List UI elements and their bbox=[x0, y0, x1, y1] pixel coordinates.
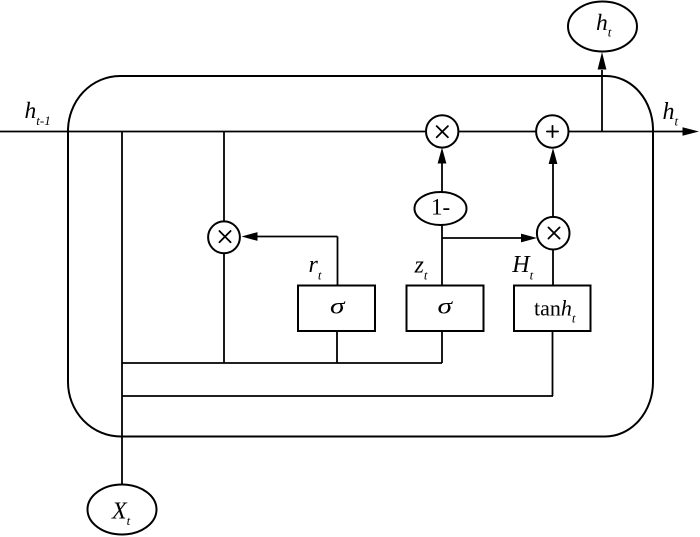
plus symbol bbox=[547, 126, 558, 137]
GRU cell body rounded rectangle bbox=[68, 76, 653, 437]
box tanh candidate bbox=[514, 286, 591, 332]
wire bottom bus 1 bbox=[122, 362, 442, 364]
arrowhead into lower multiply bbox=[521, 234, 537, 243]
svg-text:zt: zt bbox=[414, 252, 428, 282]
arrowhead into top multiply bbox=[438, 148, 447, 164]
svg-text:σ: σ bbox=[330, 294, 347, 319]
wire left multiply vertical bbox=[223, 132, 225, 364]
wire z branch to lower multiply bbox=[442, 237, 521, 239]
multiply node on main line bbox=[426, 115, 458, 147]
svg-text:ht: ht bbox=[663, 99, 679, 129]
multiply symbol left bbox=[219, 231, 230, 242]
svg-text:1-: 1- bbox=[431, 195, 450, 220]
svg-text:ht-1: ht-1 bbox=[25, 98, 51, 128]
wire main h line bbox=[0, 131, 683, 133]
arrowhead h_t right output bbox=[683, 127, 700, 136]
multiply symbol top bbox=[437, 126, 448, 137]
ellipse 1- operator bbox=[415, 192, 467, 225]
multiply symbol lower bbox=[548, 227, 559, 238]
wire r gate horizontal into left multiply bbox=[258, 236, 338, 238]
box sigma z gate bbox=[407, 286, 484, 332]
ellipse h_t output bbox=[568, 2, 637, 52]
wire z sigma box bottom drop bbox=[441, 331, 443, 363]
svg-text:rt: rt bbox=[309, 252, 322, 283]
wire h_t output riser bbox=[601, 70, 603, 132]
wire candidate to plus bbox=[552, 164, 554, 217]
ellipse X_t input bbox=[88, 485, 157, 535]
wire tanh box bottom drop bbox=[552, 331, 554, 396]
wire z vertical above 1- ellipse bbox=[441, 163, 443, 193]
plus node on main line bbox=[536, 115, 568, 147]
left multiply node (reset gate) bbox=[208, 221, 240, 253]
arrowhead into plus bbox=[549, 148, 558, 164]
box sigma r gate bbox=[298, 286, 375, 332]
wire r sigma box bottom drop bbox=[336, 331, 338, 363]
arrowhead into h_t ellipse bbox=[598, 52, 607, 70]
wire lower multiply to tanh box bbox=[552, 250, 554, 286]
svg-text:σ: σ bbox=[438, 294, 455, 319]
wire z vertical below 1- ellipse bbox=[441, 225, 443, 286]
wire bottom bus 2 bbox=[122, 395, 553, 397]
lower multiply node (update gate) bbox=[537, 217, 570, 250]
svg-text:Ht: Ht bbox=[511, 252, 533, 282]
wire x_t vertical riser bbox=[121, 132, 123, 486]
wire r gate vertical to sigma box bbox=[337, 237, 339, 286]
arrowhead into left multiply bbox=[242, 232, 258, 241]
